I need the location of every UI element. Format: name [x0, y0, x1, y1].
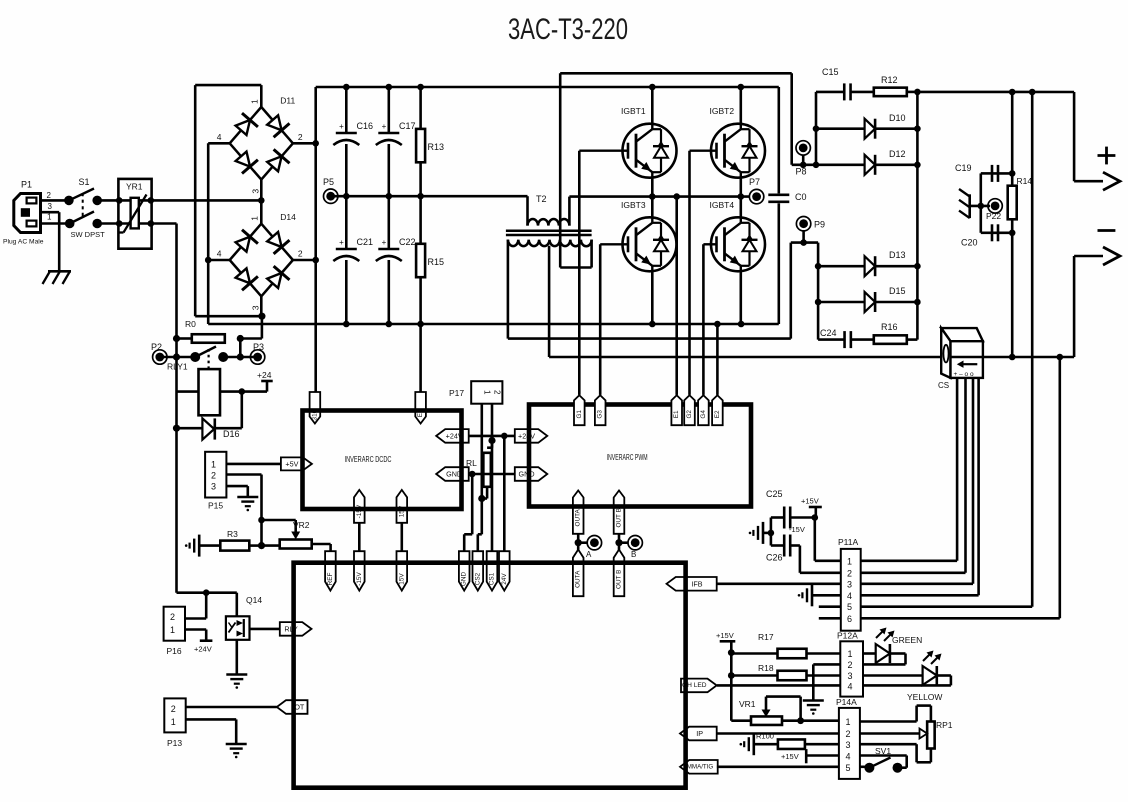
svg-text:3: 3	[211, 482, 216, 492]
svg-text:P15: P15	[208, 501, 223, 511]
svg-text:2: 2	[171, 704, 176, 714]
svg-text:+ – o o: + – o o	[954, 371, 974, 378]
svg-text:G1: G1	[576, 410, 583, 419]
svg-text:G4: G4	[700, 410, 707, 419]
svg-text:4: 4	[217, 249, 222, 259]
bus output positive	[917, 91, 1074, 94]
power +15V at P14A pin4	[805, 749, 808, 763]
diode D16	[202, 418, 214, 439]
svg-text:RP1: RP1	[936, 720, 953, 730]
wire P1 pin3 to earth	[41, 211, 60, 214]
svg-text:P7: P7	[749, 177, 760, 187]
wire IP flag to P14A pin2	[717, 732, 839, 735]
wire mid rail P5 to T2	[331, 195, 528, 198]
svg-text:D16: D16	[223, 429, 240, 439]
pin flag -15V into board	[354, 551, 365, 590]
connector P15	[205, 452, 226, 498]
power +15V at R17	[720, 640, 736, 643]
svg-text:REF: REF	[327, 573, 334, 586]
wire P9 node row	[791, 241, 818, 244]
svg-text:1: 1	[211, 460, 216, 470]
wire bridge pin4 negative rail	[208, 142, 230, 145]
connector P1 plug AC male	[14, 194, 41, 233]
terminal output minus	[1098, 229, 1116, 232]
potentiometer VR2	[262, 544, 280, 547]
wire P11A pin4 to ground	[812, 594, 841, 597]
ground R3	[198, 535, 201, 557]
wire snubber left vertical	[815, 92, 818, 165]
svg-text:+24V: +24V	[518, 431, 535, 440]
svg-text:IGBT4: IGBT4	[710, 200, 735, 210]
svg-text:3: 3	[846, 740, 851, 750]
wire P15 pin2 down	[226, 473, 261, 476]
wire CS1 drop to flag	[491, 441, 494, 552]
transistor Q14 driver	[236, 593, 239, 617]
pin flag GND out of DCDC	[436, 467, 469, 481]
svg-text:1: 1	[171, 717, 176, 727]
pin flag IFB out of board	[667, 577, 717, 591]
svg-text:VR2: VR2	[293, 520, 310, 530]
svg-text:SW DPST: SW DPST	[71, 230, 106, 239]
wire emitter E1 drop	[675, 197, 678, 395]
svg-text:RLY: RLY	[284, 624, 298, 633]
svg-text:R17: R17	[758, 632, 774, 642]
test point P2	[155, 353, 164, 362]
potentiometer VR1	[731, 719, 751, 722]
test point P8	[799, 144, 808, 153]
wire VR2 to REF flag	[329, 544, 332, 551]
pin flag 15V into board	[397, 551, 408, 590]
wire IGBT2 collector	[739, 87, 742, 124]
svg-text:P22: P22	[986, 211, 1001, 221]
relay contact RLY1	[160, 356, 195, 359]
svg-text:C26: C26	[766, 553, 783, 563]
relay RLY1 coil	[208, 349, 210, 369]
pin flag RLY into board	[280, 622, 312, 636]
wire voltage sense plus to P11A pin5	[1031, 92, 1034, 607]
pin flag G2	[684, 395, 695, 425]
wire P1 pin1 to S1	[41, 222, 67, 225]
pin flag 15V below DCDC	[397, 490, 408, 523]
svg-text:-15V: -15V	[356, 572, 363, 586]
svg-text:CS2: CS2	[474, 572, 481, 585]
svg-text:4: 4	[848, 682, 853, 692]
wire CS pin4	[977, 378, 980, 595]
svg-text:D14: D14	[280, 212, 296, 222]
wire P8 node row	[792, 164, 816, 167]
wire 15V link	[400, 523, 403, 551]
pin flag 24V into board	[499, 551, 510, 590]
svg-text:R14: R14	[1017, 176, 1033, 186]
wire +15V to P11A pin1	[812, 514, 819, 521]
pin flag 310V into DCDC	[310, 392, 321, 424]
wire D13 D15 anode vertical	[817, 243, 820, 340]
svg-text:D12: D12	[889, 149, 906, 159]
capacitor C16	[345, 87, 348, 133]
wire rectifier cathode vertical	[916, 92, 919, 340]
LED YELLOW	[863, 674, 923, 677]
capacitor C17	[387, 87, 390, 133]
wire S1 to YR1 lower	[97, 222, 119, 225]
wire voltage sense minus to P11A pin6	[1059, 357, 1062, 618]
svg-text:IGBT2: IGBT2	[710, 106, 735, 116]
svg-text:P17: P17	[449, 388, 464, 398]
svg-text:E2: E2	[714, 410, 721, 418]
svg-text:15V: 15V	[398, 573, 405, 585]
diode D12	[816, 164, 865, 167]
svg-text:P5: P5	[323, 177, 334, 187]
pin flag E1	[671, 395, 682, 425]
svg-text:P3: P3	[253, 342, 264, 352]
svg-text:C17: C17	[399, 121, 416, 131]
svg-text:5: 5	[847, 602, 852, 612]
svg-text:Plug AC Male: Plug AC Male	[3, 239, 44, 246]
resistor R100	[754, 743, 778, 746]
wire R0 bypass verticals	[175, 339, 178, 358]
wire P12A pin2 to ground	[813, 663, 840, 666]
pin flag GND into board	[459, 551, 470, 590]
pin flag REF into board	[325, 551, 336, 590]
svg-text:2: 2	[846, 729, 851, 739]
bus negative	[208, 323, 779, 326]
pin flag OUT B below PWM	[614, 491, 625, 534]
diode D10	[816, 127, 865, 130]
svg-text:RL: RL	[466, 458, 477, 468]
switch SV1	[860, 765, 870, 768]
wire emitter E2 drop	[716, 324, 719, 395]
svg-text:1: 1	[249, 216, 259, 221]
wire IGBT1 collector	[651, 87, 654, 124]
wire relay branch down to Q14	[175, 428, 178, 593]
test point A	[590, 538, 599, 547]
potentiometer RP1	[927, 722, 935, 749]
svg-text:2: 2	[47, 191, 52, 200]
wire coil left to switch vertical	[177, 390, 199, 393]
svg-text:E: E	[417, 413, 424, 417]
svg-text:3: 3	[250, 189, 260, 194]
svg-text:CS1: CS1	[489, 572, 496, 585]
wire D11 pin3 to D14 pin1 AC node	[260, 180, 263, 224]
svg-text:P16: P16	[167, 646, 182, 656]
svg-text:R12: R12	[881, 75, 898, 85]
resistor RL	[491, 441, 494, 448]
svg-text:GND: GND	[461, 572, 468, 587]
svg-text:G3: G3	[597, 410, 604, 419]
wire P13 pin2 to OT flag	[186, 706, 277, 709]
wire CS pin2	[964, 378, 967, 573]
wire D11 pin1 loop left rail	[260, 85, 263, 107]
module INVERARC DCDC	[303, 411, 462, 510]
svg-text:R18: R18	[758, 663, 774, 673]
wire GND drop to flag	[471, 474, 474, 534]
test point P22	[991, 202, 1000, 211]
svg-text:4: 4	[217, 132, 222, 142]
svg-text:P1: P1	[21, 180, 32, 190]
pin flag GND into PWM	[515, 467, 548, 481]
wire P9 branch to T2	[789, 243, 792, 339]
svg-text:+: +	[339, 122, 344, 131]
svg-text:C19: C19	[955, 163, 972, 173]
wire CS pin3	[972, 378, 975, 584]
svg-text:3: 3	[250, 305, 260, 310]
svg-text:OUT B: OUT B	[616, 570, 623, 589]
svg-text:3AC-T3-220: 3AC-T3-220	[508, 13, 628, 46]
svg-text:3: 3	[48, 202, 53, 211]
wire P15 pin3 to ground	[226, 485, 247, 488]
connector P11A	[841, 549, 861, 631]
wire Q14 to RLY flag	[250, 628, 280, 631]
svg-text:P8: P8	[796, 167, 807, 177]
svg-text:2: 2	[211, 471, 216, 481]
wire IGBT4 emitter	[739, 272, 742, 325]
svg-text:T2: T2	[536, 194, 547, 204]
svg-text:CS: CS	[938, 381, 949, 390]
wire P14A pin2 wiper RP1	[860, 732, 920, 735]
wire -15V link	[358, 523, 361, 551]
ground C25	[762, 522, 765, 544]
svg-text:A: A	[586, 550, 592, 559]
terminal output plus	[1098, 154, 1116, 157]
svg-text:E1: E1	[673, 410, 680, 418]
svg-text:P9: P9	[814, 220, 825, 230]
wire +24V rail DCDC to PWM	[469, 435, 515, 438]
connector P16	[164, 607, 185, 641]
svg-text:+15V: +15V	[801, 497, 819, 506]
pin flag +24V into PWM	[515, 429, 548, 443]
svg-text:P13: P13	[167, 738, 182, 748]
svg-text:+15V: +15V	[716, 631, 734, 640]
wire P17 pin2 down	[491, 404, 494, 441]
wire coil flyback branch	[241, 392, 244, 429]
test point P3	[253, 353, 262, 362]
wire 24V drop to flag	[503, 436, 506, 551]
wire P13 pin1 to ground	[186, 718, 237, 721]
pin flag -15V below DCDC	[354, 490, 365, 523]
wire S1 to YR1 upper	[97, 199, 119, 202]
wire relay drive row	[177, 591, 237, 594]
svg-text:+15V: +15V	[781, 752, 799, 761]
svg-text:+: +	[382, 122, 387, 131]
pin flag OUT A below PWM	[573, 491, 584, 534]
test point P9	[799, 219, 808, 228]
pin flag E into DCDC	[415, 392, 426, 424]
resistor R15	[419, 196, 422, 244]
wire P11A pin5 stub	[819, 605, 841, 608]
connector P14A	[839, 708, 860, 779]
pin flag G4	[698, 395, 709, 425]
svg-text:C22: C22	[399, 237, 416, 247]
capacitor C21	[345, 196, 348, 249]
wire OUT B to test point	[618, 534, 621, 550]
wire OUT A to test point	[577, 534, 580, 550]
transformer T2 secondary	[508, 240, 592, 247]
pin flag +5V into DCDC	[281, 457, 312, 470]
pin flag CS1 into board	[487, 551, 498, 590]
svg-text:24V: 24V	[501, 573, 508, 585]
svg-text:S1: S1	[79, 177, 90, 187]
module INVERARC PWM	[529, 405, 751, 507]
wire T2 secondary right end to P8 line	[590, 240, 593, 268]
svg-text:2: 2	[298, 249, 303, 259]
resistor R13	[419, 87, 422, 129]
svg-text:C15: C15	[822, 67, 839, 77]
svg-text:IGBT1: IGBT1	[621, 106, 646, 116]
svg-text:OT: OT	[294, 703, 305, 712]
svg-text:D10: D10	[889, 113, 906, 123]
bridge rectifier D14	[230, 224, 262, 260]
transistor IGBT3	[623, 217, 677, 271]
svg-text:R3: R3	[227, 529, 238, 539]
ground R100	[752, 733, 755, 755]
svg-text:C24: C24	[820, 328, 837, 338]
wire P16 pin1 to +24V	[185, 628, 206, 631]
wire IGBT3 emitter	[651, 272, 654, 325]
svg-text:1: 1	[848, 649, 853, 659]
wire P12A pin4 to OH LED flag	[717, 684, 840, 687]
wire YR1 to bridge AC node	[151, 199, 262, 202]
wire output minus row CS	[549, 356, 1074, 359]
svg-text:YELLOW: YELLOW	[907, 692, 942, 702]
wire Q14 source to ground	[236, 640, 239, 675]
svg-text:YR1: YR1	[126, 182, 143, 192]
svg-text:INVERARC PWM: INVERARC PWM	[607, 453, 648, 462]
diode D13	[818, 265, 865, 268]
svg-text:+: +	[382, 238, 387, 247]
svg-text:GREEN: GREEN	[892, 635, 922, 645]
capacitor C15	[816, 91, 844, 94]
pin flag OUT A into board	[573, 550, 584, 597]
svg-text:2: 2	[298, 132, 303, 142]
wire MMA TIG flag to P14A pin5	[717, 765, 839, 768]
ground Q14	[226, 673, 247, 676]
wire P16 pin2 up	[185, 617, 206, 620]
wire P14A pin4 to SV1	[860, 754, 907, 757]
svg-text:D15: D15	[889, 286, 906, 296]
pin flag +24V out of DCDC	[436, 429, 469, 443]
capacitor C26	[783, 535, 786, 557]
svg-text:+5V: +5V	[285, 459, 298, 468]
capacitor C19	[992, 172, 1012, 175]
svg-text:OUT B: OUT B	[616, 508, 623, 527]
wire bridge pin2 positive rail	[293, 142, 316, 145]
wire CS2 drop to flag	[480, 499, 483, 535]
ground P15	[237, 496, 258, 499]
wire P14A pin1 to RP1 top	[860, 720, 917, 723]
capacitor C20	[992, 232, 1012, 235]
svg-text:5: 5	[846, 763, 851, 773]
svg-text:C21: C21	[357, 237, 374, 247]
wire P11A pin6 stub	[819, 617, 841, 620]
wire GND rail DCDC to PWM	[469, 473, 515, 476]
pin flag E2	[712, 395, 723, 425]
pin flag G3	[595, 395, 606, 425]
svg-text:3: 3	[848, 671, 853, 681]
svg-text:INVERARC DCDC: INVERARC DCDC	[345, 455, 392, 464]
svg-text:IGBT3: IGBT3	[621, 200, 646, 210]
svg-text:GND: GND	[519, 470, 535, 479]
capacitor C22	[387, 196, 390, 249]
svg-text:2: 2	[848, 660, 853, 670]
pin flag IP out of board	[680, 727, 717, 741]
pin flag OH LED out of board	[681, 679, 717, 693]
resistor R18	[731, 674, 778, 677]
transistor IGBT2	[711, 124, 765, 178]
svg-text:B: B	[631, 550, 636, 559]
svg-text:+: +	[339, 238, 344, 247]
svg-text:2: 2	[493, 390, 502, 395]
current sensor CS	[941, 328, 983, 341]
resistor R16	[851, 338, 874, 341]
wire P1 pin2 to S1	[41, 199, 67, 202]
svg-text:C0: C0	[795, 192, 807, 202]
resistor R3	[199, 544, 220, 547]
svg-text:IFB: IFB	[691, 579, 702, 588]
svg-text:3: 3	[847, 579, 852, 589]
resistor R14	[1011, 92, 1014, 186]
module main control board	[294, 563, 686, 788]
svg-text:R16: R16	[881, 322, 898, 332]
svg-text:IP: IP	[696, 729, 703, 738]
svg-text:OUTA: OUTA	[575, 570, 582, 588]
transistor IGBT1	[623, 124, 677, 178]
svg-text:R13: R13	[428, 142, 445, 152]
svg-text:4: 4	[847, 591, 852, 601]
test point P7	[752, 192, 761, 201]
wire CS pin1	[956, 378, 959, 561]
ground P13	[226, 743, 247, 746]
varistor YR1	[118, 179, 151, 249]
transformer T2 core	[506, 230, 592, 233]
test point B	[631, 538, 640, 547]
bridge rectifier D11	[230, 107, 262, 143]
svg-text:R15: R15	[428, 257, 445, 267]
wire gate G2 drop	[688, 151, 691, 395]
svg-text:C20: C20	[961, 238, 978, 248]
pin flag CS2 into board	[473, 551, 484, 590]
svg-text:1: 1	[847, 556, 852, 566]
wire D14 pin3 to node	[260, 296, 263, 316]
wire P14A pin3 to RP1 bottom	[860, 743, 917, 746]
connector P17	[471, 381, 502, 404]
svg-text:R100: R100	[756, 732, 774, 741]
LED GREEN	[863, 652, 876, 655]
svg-text:G2: G2	[686, 410, 693, 419]
svg-text:OUTA: OUTA	[575, 508, 582, 526]
svg-text:R0: R0	[185, 319, 196, 329]
wire YR1 lower to relay branch	[151, 222, 177, 225]
svg-text:+24V: +24V	[194, 645, 212, 654]
svg-text:4: 4	[846, 752, 851, 762]
wire node to R0 right	[261, 316, 264, 338]
transformer T2 primary	[526, 196, 529, 225]
wire gate G1 drop	[578, 151, 581, 395]
ground P12A	[803, 699, 824, 702]
capacitor C0 snubber	[777, 87, 780, 193]
svg-text:VR1: VR1	[739, 699, 756, 709]
wire gate G3 drop	[599, 244, 602, 395]
chassis earth at P22	[968, 194, 971, 218]
capacitor C24	[818, 338, 844, 341]
switch S1 SW DPST	[64, 196, 74, 206]
wire C19 C20 junction to earth	[979, 173, 982, 232]
wire T2 secondary left end down	[507, 240, 510, 339]
svg-text:SV1: SV1	[875, 746, 891, 756]
resistor R17	[731, 652, 778, 655]
resistor R12	[851, 91, 874, 94]
svg-text:D11: D11	[280, 95, 295, 105]
svg-text:1: 1	[249, 99, 259, 104]
svg-text:MMA/TIG: MMA/TIG	[687, 763, 714, 770]
